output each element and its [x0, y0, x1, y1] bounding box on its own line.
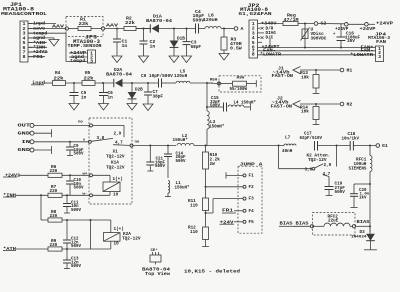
pin mark x JP2 pin4	[258, 37, 261, 39]
ground (C2)	[139, 56, 149, 63]
capacitor C20 1n 1kV	[354, 183, 370, 185]
ground (R3)	[219, 54, 229, 61]
net label tempd (JP1 pin3)	[28, 32, 66, 34]
capacitor C19 27pF 500V	[328, 177, 330, 187]
svg-text:150mH*: 150mH*	[209, 125, 225, 130]
capacitor C1 1n	[116, 29, 118, 40]
node H1	[340, 68, 344, 72]
svg-text:F3: F3	[249, 197, 255, 202]
wire R8 to K2A coil	[90, 220, 92, 249]
svg-text:150uH*: 150uH*	[173, 138, 189, 143]
wire bus C17-C18	[318, 145, 350, 147]
svg-text:G1: G1	[382, 143, 388, 149]
svg-text:*INH: *INH	[3, 193, 16, 199]
capacitor C21 10pF 500V	[149, 146, 151, 163]
inductor L1 150uH*	[168, 181, 170, 194]
connector JP1 MTA100-8	[20, 21, 28, 62]
svg-text:F1: F1	[249, 174, 255, 179]
svg-text:500V: 500V	[155, 165, 165, 169]
ground (C1)	[112, 56, 122, 63]
svg-text:2,9: 2,9	[324, 163, 332, 168]
svg-text:40nH: 40nH	[282, 149, 293, 154]
transistor CE BA870-04 top view	[150, 255, 161, 262]
resistor R13 10k	[315, 70, 317, 75]
capacitor C8 10pF 500V (port)	[69, 142, 71, 147]
wire J1 to H1	[300, 69, 340, 71]
svg-text:H1: H1	[347, 67, 353, 73]
wire X1 top path	[93, 124, 125, 126]
wire FAN- line	[258, 50, 376, 52]
svg-text:BA870-04: BA870-04	[146, 18, 172, 24]
svg-text:C17: C17	[304, 132, 312, 137]
svg-text:220: 220	[50, 214, 58, 219]
svg-text:68pF: 68pF	[191, 44, 202, 50]
node F2	[243, 185, 246, 188]
svg-text:R4: R4	[55, 70, 61, 76]
svg-text:w+: w+	[83, 172, 88, 176]
inductor RFC1 100uH SIEMENS	[369, 146, 371, 156]
net label agnd (JP3)	[69, 56, 88, 58]
svg-text:Top View: Top View	[145, 271, 170, 277]
net label +24V (F5)	[220, 223, 235, 225]
junction C7	[147, 82, 149, 84]
net label *INH (JP1 pin6)	[28, 46, 47, 48]
capacitor C15 33pF 500V	[207, 106, 224, 108]
svg-text:L4 150uH*: L4 150uH*	[234, 100, 257, 105]
capacitor C11 10n 500V	[66, 195, 68, 203]
svg-text:F5: F5	[249, 220, 255, 225]
wire +24VP rail	[318, 23, 345, 25]
ground (C3)	[182, 56, 192, 63]
varistor U VDisc 390VDC	[304, 24, 306, 48]
svg-text:FAST-ON: FAST-ON	[272, 73, 294, 79]
svg-text:55/100W: 55/100W	[230, 87, 248, 92]
svg-text:62pF/510V: 62pF/510V	[300, 136, 323, 141]
svg-text:*ATH: *ATH	[3, 246, 16, 252]
svg-text:22k: 22k	[79, 21, 89, 27]
ground (C5)	[69, 104, 79, 111]
junction R10	[205, 145, 207, 147]
wire R10-R11	[205, 169, 207, 198]
svg-text:110: 110	[190, 230, 198, 235]
capacitor C10 10n 500V	[69, 175, 71, 181]
supply terminal +24VP a	[345, 23, 349, 27]
net label BIAS left a	[279, 225, 293, 227]
junction C21	[149, 145, 151, 147]
svg-text:TQ2-12V: TQ2-12V	[106, 164, 125, 170]
svg-text:TQ2-12V: TQ2-12V	[122, 236, 141, 242]
junction Rsw node	[206, 82, 208, 84]
ground (agnd)	[49, 40, 59, 47]
svg-text:10n/1kV: 10n/1kV	[342, 136, 360, 141]
junction varistor	[304, 23, 306, 25]
svg-text:G1,G2&FAN: G1,G2&FAN	[239, 11, 272, 17]
junction D2B	[131, 82, 133, 84]
net label tempd (JP3)	[66, 61, 88, 63]
svg-text:4,7: 4,7	[323, 172, 331, 177]
svg-text:*LOWATR: *LOWATR	[260, 52, 281, 58]
junction C14	[167, 145, 169, 147]
capacitor C13 12n 500V	[66, 249, 68, 260]
svg-text:BIAS: BIAS	[296, 221, 309, 227]
svg-text:500V: 500V	[74, 187, 84, 191]
wire w- to coil	[93, 194, 111, 196]
svg-text:1n: 1n	[150, 43, 156, 49]
net label +24V2 (JP1 pin7)	[28, 51, 48, 53]
svg-text:TQ2-12V: TQ2-12V	[106, 153, 125, 159]
svg-text:10k: 10k	[301, 109, 309, 115]
svg-text:H2: H2	[347, 101, 353, 107]
wire R1 to AAV right	[91, 28, 101, 30]
svg-text:CE*: CE*	[151, 248, 158, 253]
wire *LOWATR line	[258, 54, 376, 56]
ground (D1B)	[169, 56, 179, 63]
svg-text:47/1M: 47/1M	[284, 17, 299, 23]
relay K2 contact	[312, 167, 315, 170]
wire F1 stub	[226, 174, 243, 176]
svg-text:3,8: 3,8	[97, 136, 105, 141]
svg-text:10: 10	[113, 192, 119, 197]
node F3	[243, 197, 246, 200]
svg-text:JUMP A: JUMP A	[240, 162, 264, 168]
capacitor C12 12n 500V	[66, 220, 68, 240]
svg-text:L7: L7	[285, 134, 291, 140]
svg-text:1n: 1n	[81, 95, 87, 101]
svg-text:2W: 2W	[210, 162, 216, 167]
svg-text:D/C: D/C	[266, 36, 274, 41]
capacitor C5 1n	[73, 83, 75, 93]
junction R3	[223, 28, 225, 30]
net label FR1 (F4)	[222, 212, 236, 214]
svg-text:SIEMENS: SIEMENS	[349, 167, 367, 172]
connector JP3 MTA100-3 TEMP.SENSOR	[88, 50, 96, 63]
junction C5	[65, 82, 82, 84]
resistor R11 110	[203, 198, 209, 211]
node G2	[314, 22, 318, 26]
svg-text:OUT: OUT	[18, 123, 31, 129]
svg-text:1(+): 1(+)	[113, 177, 123, 182]
wire DIAG down-jog	[269, 38, 271, 48]
capacitor C7 38pF	[147, 83, 149, 92]
svg-text:+24V: +24V	[220, 219, 234, 225]
svg-text:220: 220	[50, 243, 58, 248]
connector JP4 MTA100-3 FAN	[376, 46, 384, 62]
svg-text:500V: 500V	[176, 160, 186, 164]
terminal bar (L4 end)	[250, 104, 252, 111]
svg-text:GND: GND	[18, 147, 31, 153]
svg-text:2,9: 2,9	[114, 131, 122, 136]
svg-text:38pF: 38pF	[153, 94, 164, 100]
svg-text:+24VP: +24VP	[376, 20, 393, 26]
svg-text:no: no	[78, 121, 83, 125]
node F4	[243, 209, 246, 212]
relay coil K1A	[103, 182, 120, 192]
capacitor C14 20pF 500V	[167, 146, 169, 155]
net label *ATH row	[3, 250, 16, 252]
resistor R14 10k	[315, 104, 317, 107]
wire R12 to bar	[205, 240, 207, 247]
svg-text:120uH: 120uH	[203, 17, 218, 23]
net label agnd (JP1 pin4)	[28, 37, 54, 39]
svg-text:10k: 10k	[301, 74, 309, 80]
wire w+ to coil	[93, 174, 111, 176]
svg-text:R50: R50	[210, 79, 218, 83]
net label FR1 (JP1 pin8)	[28, 56, 45, 58]
svg-text:1n: 1n	[122, 43, 128, 49]
svg-text:FR1: FR1	[222, 208, 233, 214]
net label +24V2 row	[3, 176, 17, 178]
wire mid vertical lower	[206, 129, 208, 146]
svg-text:F4: F4	[249, 209, 255, 214]
relay coil K2A	[104, 233, 121, 242]
wire mid vertical	[206, 83, 208, 111]
svg-text:C9 10pF/500V: C9 10pF/500V	[141, 73, 173, 79]
svg-text:0.5W: 0.5W	[230, 45, 242, 51]
junction K2 bypass	[278, 145, 280, 147]
svg-text:TEMP.SENSOR: TEMP.SENSOR	[68, 43, 102, 49]
svg-text:1kV: 1kV	[359, 195, 367, 200]
junction C10	[69, 174, 71, 176]
svg-text:8: 8	[252, 51, 255, 57]
net label +24VP (JP3)	[69, 52, 88, 54]
wire BIAS right	[356, 225, 370, 227]
resistor R10 2.2k 2W	[205, 146, 207, 153]
net label *INH row	[3, 196, 16, 198]
resistor R1 22k (dashed select box)	[66, 17, 103, 37]
svg-text:500V: 500V	[71, 245, 81, 249]
svg-text:R5: R5	[85, 70, 91, 76]
svg-text:3: 3	[378, 54, 381, 60]
junction C15 branch	[206, 106, 208, 108]
svg-text:FR1: FR1	[33, 54, 43, 60]
jumper block JUMP A	[238, 166, 262, 233]
svg-text:1n: 1n	[108, 95, 114, 101]
relay X1 dashed box	[89, 118, 132, 204]
svg-text:500V: 500V	[71, 265, 81, 269]
wire INH down to R8	[40, 195, 42, 220]
svg-text:4,7: 4,7	[115, 140, 123, 145]
svg-text:500V: 500V	[210, 105, 220, 109]
wire JP2 pin3 DIAG	[258, 32, 265, 34]
svg-text:10,K15 - deleted: 10,K15 - deleted	[184, 268, 240, 274]
svg-text:1N4024: 1N4024	[351, 235, 367, 239]
svg-text:F2: F2	[249, 185, 255, 190]
svg-text:BIAS: BIAS	[357, 219, 370, 225]
connector JP2 MTA100-8 G1,G2,FAN	[249, 20, 258, 58]
svg-text:120uH: 120uH	[174, 73, 188, 79]
svg-text:500V: 500V	[74, 153, 84, 157]
terminal bar (D3 bottom)	[364, 249, 377, 251]
svg-text:A: A	[241, 26, 244, 32]
svg-text:no: no	[135, 140, 140, 144]
junction C6	[102, 82, 104, 84]
wire +24VPT line	[258, 47, 376, 49]
net label aavo (JP1 pin2)	[28, 28, 45, 30]
resistor Rsw 55/100W (dashed box)	[219, 76, 261, 92]
supply terminal +24VP b	[365, 23, 369, 27]
svg-text:8: 8	[23, 54, 26, 60]
wire tempd to JP3	[65, 33, 67, 61]
svg-text:22k: 22k	[125, 20, 135, 26]
svg-text:BIAS: BIAS	[280, 221, 293, 227]
ground (D2B)	[127, 104, 137, 111]
svg-text:+24V2: +24V2	[5, 172, 20, 178]
resistor R12 110	[203, 227, 209, 240]
wire main bus mid	[194, 145, 284, 147]
wire R11-R12	[205, 211, 207, 228]
svg-text:D2B: D2B	[135, 88, 143, 93]
svg-text:150uH*: 150uH*	[175, 186, 190, 191]
node F1	[243, 174, 246, 177]
wire F2 to R10/R11	[206, 186, 244, 188]
junction C3	[186, 28, 188, 30]
svg-text:500V: 500V	[71, 209, 81, 213]
node A	[234, 27, 238, 31]
junction RFC1 top	[369, 145, 371, 147]
wire JP2 pin1 +340V	[258, 23, 284, 25]
svg-text:tempd: tempd	[70, 58, 86, 64]
svg-text:L1: L1	[176, 181, 182, 186]
svg-text:MEAS&CONTROL: MEAS&CONTROL	[1, 11, 47, 17]
capacitor C2 1n	[143, 29, 145, 42]
wire F3 to R11/R12	[213, 198, 243, 200]
capacitor C16 1100uF 35V	[340, 24, 342, 37]
svg-text:FAST-ON: FAST-ON	[271, 103, 293, 109]
svg-text:35V: 35V	[347, 38, 355, 44]
net label inpd (JP1 pin1)	[28, 23, 56, 25]
ground (C6)	[99, 104, 109, 111]
svg-text:3,6: 3,6	[305, 167, 313, 172]
svg-text:inpd: inpd	[32, 80, 45, 86]
svg-text:3: 3	[90, 58, 93, 64]
svg-text:10: 10	[114, 242, 120, 247]
pin mark x JP2 pin2	[258, 27, 261, 29]
wire main bus left	[133, 145, 176, 147]
svg-text:+24VP: +24VP	[360, 26, 376, 32]
node G1	[376, 144, 380, 148]
wire JP2 pin5 stub	[258, 41, 263, 43]
svg-text:390VDC: 390VDC	[311, 35, 327, 41]
net label inpd row2	[31, 84, 44, 86]
wire K2 bypass	[278, 146, 280, 169]
svg-text:110: 110	[190, 204, 198, 209]
inductor L3 150mH*	[207, 111, 209, 129]
svg-text:*LOWATR: *LOWATR	[350, 52, 373, 58]
net label *AIN (JP1 pin5)	[28, 42, 47, 44]
svg-text:BA870-04: BA870-04	[106, 71, 132, 77]
junction C20	[369, 183, 371, 185]
wire BIAS left	[293, 225, 310, 227]
svg-text:FAN: FAN	[376, 39, 386, 45]
wire J2 to H2	[300, 103, 340, 105]
svg-text:D1B: D1B	[177, 36, 185, 42]
capacitor C6 1n	[103, 83, 105, 93]
svg-text:500V: 500V	[335, 190, 346, 195]
junction C2	[143, 28, 145, 30]
junction D1B	[173, 28, 175, 30]
svg-text:C18: C18	[348, 132, 356, 137]
node F5	[243, 220, 246, 223]
svg-text:D3: D3	[360, 230, 366, 235]
capacitor C3 68p	[186, 29, 188, 42]
junction INH-R8	[40, 194, 42, 196]
node no (bus start)	[113, 144, 130, 147]
ground (C7)	[143, 104, 153, 111]
svg-text:IN: IN	[22, 139, 31, 145]
svg-text:Rsw: Rsw	[237, 76, 245, 81]
inductor RFC2 22uE (dashed box)	[313, 213, 356, 236]
resistor R3 470R 0.5W	[223, 29, 225, 38]
node H2	[340, 102, 344, 106]
svg-text:w-: w-	[83, 192, 88, 196]
svg-text:GND: GND	[18, 130, 31, 136]
